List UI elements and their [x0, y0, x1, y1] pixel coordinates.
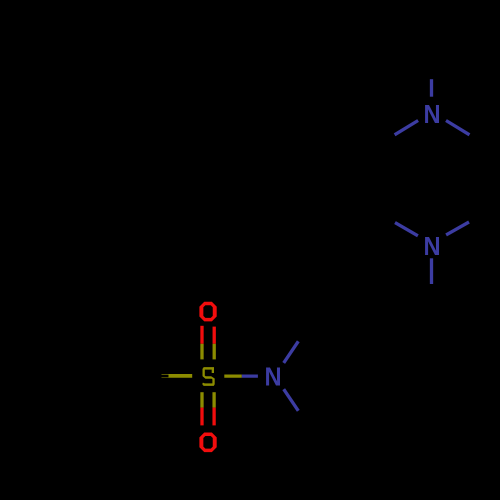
- wire: S-N bond, S half (olive): [224, 374, 241, 377]
- node O: sulfonyl bottom oxygen label: [199, 433, 216, 453]
- svg-text:N: N: [265, 363, 282, 392]
- wire: S=O bottom double bond, right line O half (red): [212, 408, 215, 426]
- svg-text:N: N: [424, 100, 441, 129]
- svg-text:N: N: [424, 232, 441, 261]
- wire: S=O bottom double bond, right line S half (olive): [212, 392, 215, 407]
- wire: S-N bond, N half (blue): [242, 374, 258, 377]
- wire: S=O top double bond, right line S half (olive): [213, 344, 216, 360]
- wire: S=O top double bond, left line S half (olive): [200, 344, 203, 360]
- wire: methyl bond above piperazine N1: [430, 79, 433, 97]
- wire: N4 to ring C3 (up-right half-bond): [446, 222, 469, 235]
- node S: sulfonyl sulfur label: [203, 367, 215, 386]
- wire: pyrrolidine N to C5 (down-right half-bond): [284, 389, 299, 411]
- wire: S-CH3 bond, S half (olive, with carbon half overdrawn in black leaving fringe): [162, 374, 193, 378]
- wire: N4 to ring C5 (up-left half-bond): [395, 223, 418, 236]
- wire: pyrrolidine N to C2 (up-right half-bond): [284, 341, 299, 363]
- wire: S=O bottom double bond, left line O half (red): [200, 408, 203, 426]
- node O: sulfonyl top oxygen label: [199, 302, 216, 322]
- wire: N1 to ring C2 (down-right half-bond): [446, 121, 470, 135]
- wire: N4 to CH2 linker (down half-bond): [430, 258, 433, 284]
- wire: S=O top double bond, left line O half (red): [200, 326, 203, 344]
- wire: S=O bottom double bond, left line S half (olive): [200, 392, 203, 407]
- wire: N1 to ring C6 (down-left half-bond): [395, 121, 419, 135]
- wire: S=O top double bond, right line O half (red): [213, 327, 216, 344]
